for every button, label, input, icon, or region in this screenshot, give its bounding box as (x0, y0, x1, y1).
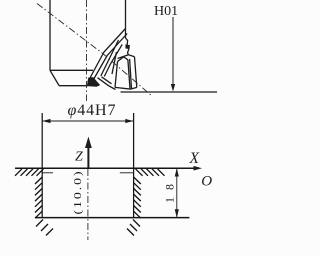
insert bar inner line (91, 34, 127, 84)
surface / X axis line (15, 167, 199, 169)
hole left wall (41, 113, 43, 218)
hatch left wall (35, 177, 42, 184)
left inner tick (42, 172, 53, 174)
right outline jogs (126, 38, 128, 45)
outer panel bottom (131, 87, 137, 89)
insert edge 2 (104, 44, 122, 76)
svg-text:O: O (201, 173, 212, 189)
clamp block right side outer (130, 59, 132, 89)
right inner tick (120, 172, 134, 174)
clamp block right side inner (128, 60, 130, 89)
hole centerline dash-dot (87, 169, 89, 240)
Z axis (87, 146, 89, 168)
wedge bottom edge (98, 78, 116, 90)
svg-text:Z: Z (75, 150, 83, 165)
tool shank left edge (49, 0, 51, 70)
insert seat line (112, 52, 117, 74)
svg-text:X: X (189, 150, 200, 167)
wedge parallel line (102, 77, 112, 84)
18 dimension line (176, 168, 178, 217)
hatch right wall (134, 177, 141, 184)
tool centerline (dash-dot) (86, 0, 88, 101)
hatch below bottom left (36, 220, 43, 227)
hole right wall (133, 113, 135, 218)
outer panel right side (135, 57, 137, 88)
hole bottom line (35, 217, 189, 219)
overhang (118, 55, 135, 59)
H01 leader arrow (172, 17, 174, 88)
insert tip blob (87, 78, 99, 87)
tool boot top line (50, 69, 93, 71)
X axis arrowhead (194, 166, 203, 171)
clamp block bottom (115, 87, 131, 89)
screw head dark (126, 45, 130, 49)
45 degree axis dash-dot (37, 4, 152, 97)
svg-text:H01: H01 (154, 4, 178, 19)
svg-text:φ44H7: φ44H7 (68, 102, 116, 119)
tool shank right edge (125, 0, 127, 38)
hatch surface left (15, 169, 22, 176)
workpiece surface line (top figure) (121, 91, 218, 93)
clamp block top peak (118, 57, 128, 62)
tool boot chamfer (50, 70, 59, 85)
hatch surface right (136, 169, 143, 176)
insert edge 1 (101, 40, 119, 76)
hatch below bottom right (133, 220, 140, 227)
insert bar left edge (88, 29, 126, 83)
clamp block left side (115, 62, 118, 88)
phi44 dimension line (42, 120, 133, 122)
tool boot bottom (59, 85, 88, 87)
